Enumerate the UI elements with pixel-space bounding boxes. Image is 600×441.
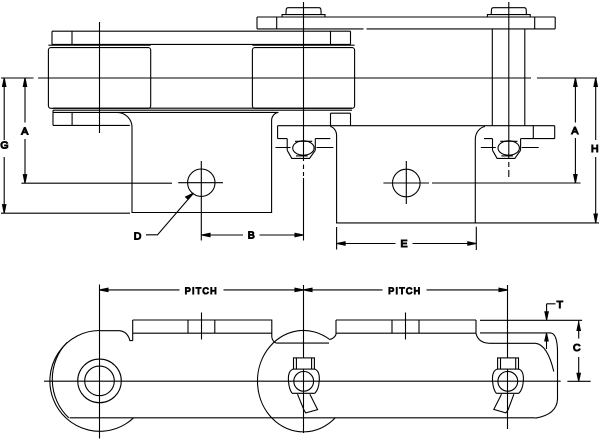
dimension B (202, 233, 304, 236)
link 1 centerline (99, 285, 101, 439)
midpoint tick 2 (405, 313, 407, 340)
svg-text:PITCH: PITCH (185, 286, 218, 296)
pin 3 head (487, 8, 530, 17)
roller 2 (252, 48, 354, 109)
roller 1 (48, 48, 150, 109)
svg-text:G: G (0, 140, 8, 152)
main centerline bottom view (44, 380, 591, 382)
bottom edge line (70, 417, 536, 419)
svg-text:H: H (591, 143, 599, 155)
dimension A right (432, 78, 581, 183)
dimension C (577, 320, 580, 381)
svg-text:D: D (134, 231, 142, 243)
dimension E (337, 227, 477, 250)
dimension A left (21, 78, 172, 183)
roller plate band 1 (133, 320, 273, 341)
pin 3 centerline vertical (508, 2, 510, 177)
dimension PITCH 1 (100, 288, 304, 291)
link 3 end cap (480, 333, 558, 418)
dimension PITCH 2 (304, 288, 508, 291)
pin 2 cotter detail (276, 139, 334, 159)
inner plate edge line link3 (489, 343, 554, 371)
svg-text:E: E (400, 238, 407, 250)
svg-text:A: A (571, 125, 578, 137)
link 2 washer (288, 369, 319, 393)
inner plate edge line link2 (277, 342, 329, 344)
link 3 castle (498, 358, 519, 369)
link 3 cotter leg (494, 394, 514, 413)
pin 2 centerline vertical (303, 2, 305, 241)
midpoint tick 1 (201, 313, 203, 340)
band 2 right notch (476, 333, 489, 343)
link 2 centerline (303, 285, 305, 433)
link 2 pin circle (294, 371, 314, 391)
leader D (146, 193, 194, 235)
band 1 right notch (272, 337, 277, 343)
hole D right (393, 169, 421, 197)
svg-text:PITCH: PITCH (388, 286, 421, 296)
hole D right cross (383, 161, 429, 204)
link 1 outer arc (50, 331, 134, 432)
link 3 centerline (507, 285, 509, 429)
roller link plate top band (52, 31, 351, 44)
pin centerline (horizontal) (1, 77, 597, 79)
hole D left (188, 169, 215, 196)
svg-text:B: B (248, 229, 255, 241)
pin 2 head (282, 8, 325, 17)
dimension T (480, 304, 582, 349)
right attachment plate (330, 127, 485, 223)
hole D left cross (178, 161, 223, 241)
bottom band right end box (331, 113, 351, 125)
link 1 bushing circle (85, 366, 115, 396)
link 1 inner arc (52, 343, 69, 418)
lower pin link plate (278, 126, 555, 139)
roller plate bottom band (53, 108, 352, 125)
upper pin link plate (257, 17, 555, 29)
dimension G (1, 78, 130, 213)
left attachment plate (117, 112, 278, 212)
svg-text:C: C (573, 342, 581, 354)
link 3 pin circle (498, 371, 518, 391)
roller plate band 2 (336, 320, 476, 335)
lower pin plate bottom edge (278, 138, 555, 140)
band 1 left notch (100, 331, 133, 341)
dimension H (475, 78, 599, 223)
roller 2 cap line (252, 44, 354, 46)
roller 1 centerline vertical (99, 22, 101, 133)
link 3 washer (492, 369, 523, 393)
svg-text:A: A (21, 126, 28, 138)
band 2 left notch (329, 335, 336, 340)
link 1 roller circle (78, 359, 122, 403)
link 2 outer arc (257, 330, 335, 431)
pin 3 cotter detail (481, 139, 539, 159)
roller 1 cap line (48, 44, 150, 46)
pin 3 shank (492, 29, 525, 126)
svg-text:T: T (557, 299, 564, 311)
link 2 castle (294, 358, 315, 369)
link 2 cotter leg (298, 394, 318, 413)
